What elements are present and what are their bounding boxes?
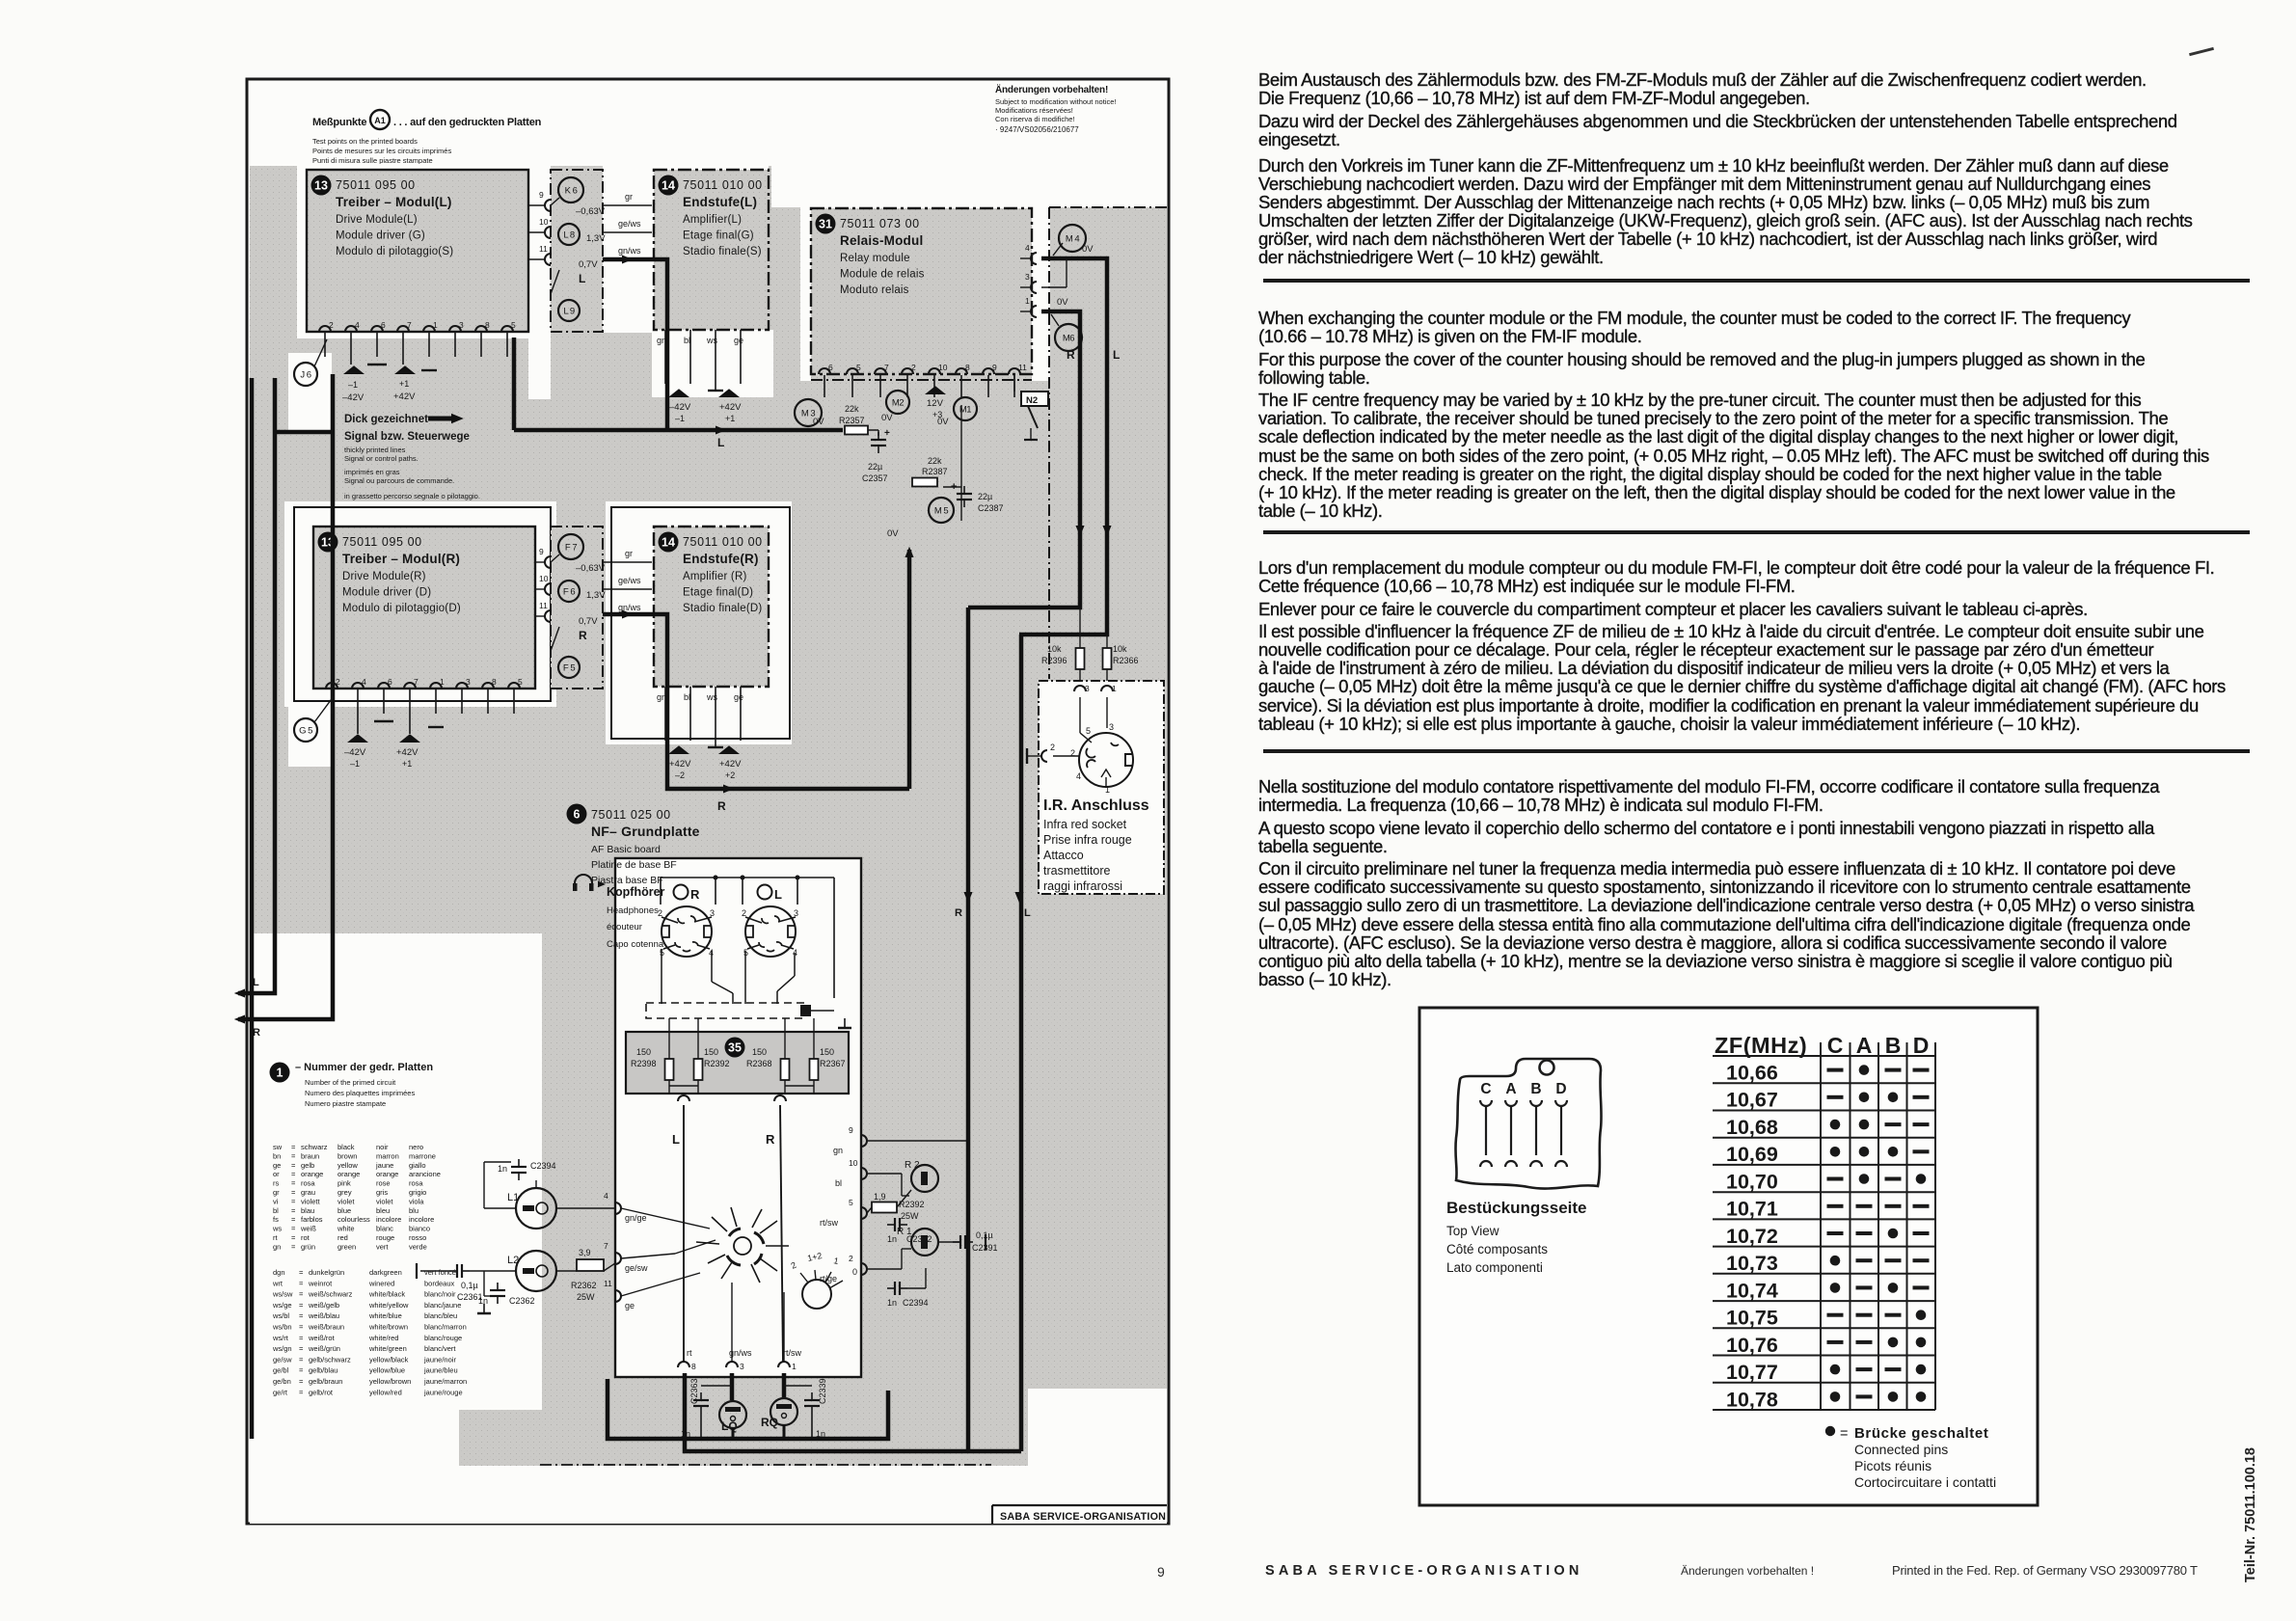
svg-text:F 5: F 5 xyxy=(563,663,575,674)
svg-text:4: 4 xyxy=(1025,243,1030,253)
svg-text:– Nummer der gedr. Platten: – Nummer der gedr. Platten xyxy=(295,1062,433,1073)
svg-text:Numero piastre stampate: Numero piastre stampate xyxy=(305,1099,386,1108)
svg-text:K 6: K 6 xyxy=(565,186,578,197)
svg-text:rouge: rouge xyxy=(376,1233,394,1242)
svg-text:R2392: R2392 xyxy=(704,1059,730,1068)
svg-text:3: 3 xyxy=(459,320,464,330)
svg-text:weinrot: weinrot xyxy=(308,1279,333,1287)
svg-text:LQ: LQ xyxy=(721,1419,738,1433)
svg-text:+: + xyxy=(951,481,957,493)
svg-text:9: 9 xyxy=(539,547,544,556)
svg-text:Picots réunis: Picots réunis xyxy=(1854,1458,1931,1473)
svg-text:–0,63V: –0,63V xyxy=(576,206,606,217)
svg-text:10,72: 10,72 xyxy=(1726,1225,1778,1248)
svg-text:R2368: R2368 xyxy=(746,1059,772,1068)
svg-text:red: red xyxy=(338,1233,348,1242)
svg-text:A1: A1 xyxy=(374,116,386,125)
svg-text:Attacco: Attacco xyxy=(1043,849,1084,862)
svg-text:Connected pins: Connected pins xyxy=(1854,1442,1948,1457)
svg-text:fs: fs xyxy=(273,1215,279,1224)
svg-text:=: = xyxy=(299,1334,304,1342)
svg-text:ge: ge xyxy=(734,692,743,702)
svg-text:dgn: dgn xyxy=(273,1268,285,1277)
svg-text:L: L xyxy=(1024,907,1031,919)
svg-text:11: 11 xyxy=(539,244,548,254)
svg-text:gn: gn xyxy=(657,692,666,702)
svg-text:· 9247/VS02056/210677: · 9247/VS02056/210677 xyxy=(995,125,1079,134)
svg-text:R2366: R2366 xyxy=(1113,656,1139,665)
svg-text:ws: ws xyxy=(272,1225,282,1233)
svg-text:=: = xyxy=(299,1311,304,1320)
svg-text:rt/sw: rt/sw xyxy=(820,1218,838,1228)
svg-text:=: = xyxy=(291,1197,296,1205)
svg-text:giallo: giallo xyxy=(409,1161,426,1170)
svg-text:Bestückungsseite: Bestückungsseite xyxy=(1446,1199,1587,1217)
svg-text:+42V: +42V xyxy=(393,392,416,402)
svg-text:Amplifier(L): Amplifier(L) xyxy=(683,214,742,226)
svg-text:L: L xyxy=(579,272,585,285)
svg-text:C2357: C2357 xyxy=(862,473,888,483)
svg-text:vert: vert xyxy=(376,1242,389,1251)
svg-text:G 5: G 5 xyxy=(299,726,312,737)
svg-text:Signal or control paths.: Signal or control paths. xyxy=(344,454,419,463)
svg-text:2: 2 xyxy=(849,1254,853,1263)
svg-text:11: 11 xyxy=(604,1279,612,1288)
svg-text:3: 3 xyxy=(1085,684,1090,693)
svg-text:ws/rt: ws/rt xyxy=(272,1334,289,1342)
svg-text:1: 1 xyxy=(1112,684,1117,693)
svg-text:10,73: 10,73 xyxy=(1726,1252,1778,1275)
svg-text:1: 1 xyxy=(433,320,438,330)
svg-text:C: C xyxy=(1480,1081,1491,1097)
svg-text:Modulo di pilotaggio(S): Modulo di pilotaggio(S) xyxy=(336,246,453,257)
svg-text:1,9: 1,9 xyxy=(874,1192,886,1202)
svg-text:weiß/grün: weiß/grün xyxy=(308,1344,340,1353)
svg-text:gn: gn xyxy=(273,1242,281,1251)
svg-text:Meßpunkte: Meßpunkte xyxy=(312,117,366,128)
svg-text:white/red: white/red xyxy=(368,1334,398,1342)
svg-text:0V: 0V xyxy=(937,417,949,427)
svg-text:Moduto relais: Moduto relais xyxy=(840,284,909,296)
svg-text:AF Basic board: AF Basic board xyxy=(591,844,661,855)
svg-text:rt/sw: rt/sw xyxy=(783,1348,801,1358)
svg-text:Relais-Modul: Relais-Modul xyxy=(840,233,923,248)
svg-text:+1: +1 xyxy=(402,759,412,769)
svg-text:–42V: –42V xyxy=(344,747,366,758)
svg-text:white/brown: white/brown xyxy=(368,1323,408,1332)
svg-text:gn: gn xyxy=(657,336,666,345)
svg-text:R 1: R 1 xyxy=(897,1227,912,1237)
svg-text:white/black: white/black xyxy=(368,1290,405,1299)
svg-text:white/yellow: white/yellow xyxy=(368,1301,409,1310)
svg-text:Numero des plaquettes imprimée: Numero des plaquettes imprimées xyxy=(305,1089,415,1097)
svg-text:10,70: 10,70 xyxy=(1726,1170,1778,1193)
svg-text:Modulo di pilotaggio(D): Modulo di pilotaggio(D) xyxy=(342,603,461,614)
svg-text:Subject to modification withou: Subject to modification without notice! xyxy=(995,97,1117,106)
svg-text:ws/sw: ws/sw xyxy=(272,1290,293,1299)
svg-text:Test points on the printed boa: Test points on the printed boards xyxy=(312,137,418,146)
svg-text:12V: 12V xyxy=(927,398,944,409)
svg-text:imprimés en gras: imprimés en gras xyxy=(344,468,400,476)
svg-text:3: 3 xyxy=(466,677,471,687)
svg-text:3: 3 xyxy=(1025,272,1030,282)
svg-text:bl: bl xyxy=(684,692,690,702)
svg-text:M6: M6 xyxy=(1063,334,1074,344)
svg-text:–42V: –42V xyxy=(669,402,691,413)
svg-text:ge/sw: ge/sw xyxy=(273,1355,292,1364)
svg-text:Modifications réservées!: Modifications réservées! xyxy=(995,106,1073,115)
svg-text:Endstufe(L): Endstufe(L) xyxy=(683,195,757,209)
svg-text:Kopfhörer: Kopfhörer xyxy=(607,885,665,899)
svg-text:A: A xyxy=(1505,1081,1516,1097)
svg-text:10: 10 xyxy=(849,1158,858,1168)
svg-text:jaune/marron: jaune/marron xyxy=(423,1377,467,1386)
svg-text:5: 5 xyxy=(856,363,861,372)
svg-text:9: 9 xyxy=(849,1125,853,1135)
svg-text:Cortocircuitare i contatti: Cortocircuitare i contatti xyxy=(1854,1474,1996,1490)
svg-text:=: = xyxy=(299,1323,304,1332)
svg-text:farblos: farblos xyxy=(301,1215,323,1224)
svg-text:Prise infra rouge: Prise infra rouge xyxy=(1043,833,1132,847)
svg-text:raggi infrarossi: raggi infrarossi xyxy=(1043,879,1122,893)
svg-text:Top View: Top View xyxy=(1446,1224,1499,1238)
svg-text:ge/bl: ge/bl xyxy=(273,1366,289,1375)
svg-text:C2362: C2362 xyxy=(509,1296,535,1306)
svg-text:4: 4 xyxy=(362,677,366,687)
svg-text:14: 14 xyxy=(662,179,675,193)
svg-text:Treiber – Modul(L): Treiber – Modul(L) xyxy=(336,195,452,209)
svg-text:Treiber – Modul(R): Treiber – Modul(R) xyxy=(342,552,460,566)
svg-text:22k: 22k xyxy=(928,456,942,466)
svg-text:yellow/black: yellow/black xyxy=(369,1355,409,1364)
svg-text:13: 13 xyxy=(314,179,328,193)
svg-text:2: 2 xyxy=(336,677,340,687)
svg-text:rot: rot xyxy=(301,1233,311,1242)
svg-text:ws/ge: ws/ge xyxy=(272,1301,292,1310)
svg-text:+42V: +42V xyxy=(669,759,691,770)
svg-text:Brücke geschaltet: Brücke geschaltet xyxy=(1854,1425,1988,1442)
svg-text:1n: 1n xyxy=(478,1296,488,1306)
svg-text:+42V: +42V xyxy=(719,759,742,770)
svg-text:R 2: R 2 xyxy=(905,1160,920,1171)
svg-text:Module driver (D): Module driver (D) xyxy=(342,587,431,599)
svg-text:C: C xyxy=(1827,1033,1844,1058)
svg-text:R: R xyxy=(1067,348,1075,362)
svg-text:10: 10 xyxy=(539,574,549,583)
svg-text:yellow: yellow xyxy=(338,1161,358,1170)
svg-text:gelb/rot: gelb/rot xyxy=(309,1388,334,1396)
svg-text:1: 1 xyxy=(440,677,445,687)
svg-text:J 6: J 6 xyxy=(300,370,311,381)
svg-text:22µ: 22µ xyxy=(868,462,882,472)
svg-text:viola: viola xyxy=(409,1197,424,1205)
svg-text:=: = xyxy=(291,1179,296,1188)
svg-text:=: = xyxy=(291,1242,296,1251)
svg-text:gelb: gelb xyxy=(301,1161,314,1170)
svg-text:Module driver (G): Module driver (G) xyxy=(336,230,425,242)
svg-text:75011 025 00: 75011 025 00 xyxy=(591,808,671,822)
svg-text:gn: gn xyxy=(833,1146,843,1155)
svg-text:0: 0 xyxy=(852,1267,857,1277)
svg-text:vert foncé: vert foncé xyxy=(424,1268,456,1277)
svg-text:bl: bl xyxy=(273,1206,279,1215)
svg-text:bl: bl xyxy=(835,1178,842,1188)
svg-text:blanc: blanc xyxy=(376,1225,393,1233)
svg-text:Dick gezeichnet: Dick gezeichnet xyxy=(344,414,428,425)
svg-text:22k: 22k xyxy=(845,404,859,414)
svg-text:blanc/rouge: blanc/rouge xyxy=(424,1334,462,1342)
svg-text:gn/ws: gn/ws xyxy=(618,603,641,612)
svg-text:1: 1 xyxy=(277,1067,284,1080)
svg-text:Stadio finale(D): Stadio finale(D) xyxy=(683,603,762,614)
svg-text:marrone: marrone xyxy=(409,1151,436,1160)
svg-text:L 8: L 8 xyxy=(563,230,575,241)
svg-text:0V: 0V xyxy=(887,528,899,539)
svg-text:–2: –2 xyxy=(675,770,685,780)
svg-text:7: 7 xyxy=(407,320,412,330)
svg-text:=: = xyxy=(291,1170,296,1178)
svg-text:rosa: rosa xyxy=(409,1179,423,1188)
svg-text:yellow/blue: yellow/blue xyxy=(369,1366,405,1375)
svg-text:ge/bn: ge/bn xyxy=(273,1377,291,1386)
svg-text:weiß/blau: weiß/blau xyxy=(308,1311,339,1320)
svg-text:jaune/rouge: jaune/rouge xyxy=(423,1388,463,1396)
svg-text:ge: ge xyxy=(273,1161,281,1170)
svg-text:marron: marron xyxy=(376,1151,399,1160)
svg-text:B: B xyxy=(1885,1033,1902,1058)
svg-text:Stadio finale(S): Stadio finale(S) xyxy=(683,246,762,257)
svg-text:blanc/vert: blanc/vert xyxy=(424,1344,456,1353)
svg-text:10,71: 10,71 xyxy=(1726,1198,1778,1221)
svg-text:SABA SERVICE-ORGANISATION: SABA SERVICE-ORGANISATION xyxy=(1000,1511,1166,1523)
svg-text:=: = xyxy=(291,1233,296,1242)
svg-text:3,9: 3,9 xyxy=(579,1248,591,1257)
svg-text:Relay module: Relay module xyxy=(840,253,910,264)
svg-text:L1: L1 xyxy=(507,1192,519,1203)
svg-text:bianco: bianco xyxy=(409,1225,430,1233)
svg-text:75011 095 00: 75011 095 00 xyxy=(336,178,416,192)
svg-text:R2367: R2367 xyxy=(820,1059,846,1068)
svg-text:ws/bl: ws/bl xyxy=(272,1311,289,1320)
svg-text:F 7: F 7 xyxy=(565,543,577,554)
svg-text:Endstufe(R): Endstufe(R) xyxy=(683,552,759,566)
svg-text:jaune: jaune xyxy=(375,1161,393,1170)
svg-text:=: = xyxy=(299,1268,304,1277)
svg-text:10,78: 10,78 xyxy=(1726,1388,1778,1411)
svg-text:0V: 0V xyxy=(1082,244,1094,255)
svg-text:150: 150 xyxy=(820,1047,834,1057)
svg-text:Number of the primed circuit: Number of the primed circuit xyxy=(305,1078,396,1087)
svg-text:weiß/rot: weiß/rot xyxy=(308,1334,336,1342)
svg-text:ge/ws: ge/ws xyxy=(618,219,641,229)
svg-text:blu: blu xyxy=(409,1206,419,1215)
svg-text:sw: sw xyxy=(273,1143,283,1151)
svg-text:ws/bn: ws/bn xyxy=(272,1323,292,1332)
svg-text:2: 2 xyxy=(329,320,334,330)
svg-text:2: 2 xyxy=(1050,743,1055,752)
svg-text:5: 5 xyxy=(849,1198,853,1207)
svg-text:bordeaux: bordeaux xyxy=(424,1279,455,1287)
svg-text:Etage final(G): Etage final(G) xyxy=(683,230,754,242)
svg-text:=: = xyxy=(291,1161,296,1170)
svg-text:arancione: arancione xyxy=(409,1170,441,1178)
svg-text:0V: 0V xyxy=(881,413,893,423)
svg-text:I.R. Anschluss: I.R. Anschluss xyxy=(1043,797,1149,814)
svg-text:1: 1 xyxy=(1025,296,1030,306)
svg-text:=: = xyxy=(1840,1426,1848,1442)
svg-text:rosa: rosa xyxy=(301,1179,315,1188)
svg-text:violett: violett xyxy=(301,1197,321,1205)
svg-text:gris: gris xyxy=(376,1188,388,1197)
svg-text:incolore: incolore xyxy=(409,1215,434,1224)
svg-text:1n: 1n xyxy=(498,1164,507,1174)
svg-text:verde: verde xyxy=(409,1242,427,1251)
svg-text:gn/ws: gn/ws xyxy=(618,246,641,256)
svg-text:R2357: R2357 xyxy=(839,416,865,425)
svg-text:10,67: 10,67 xyxy=(1726,1089,1778,1112)
svg-text:11: 11 xyxy=(1018,363,1027,372)
svg-text:blanc/noir: blanc/noir xyxy=(424,1290,456,1299)
svg-text:dunkelgrün: dunkelgrün xyxy=(309,1268,344,1277)
svg-text:ge: ge xyxy=(625,1301,635,1310)
svg-text:3: 3 xyxy=(794,908,798,918)
svg-text:M 4: M 4 xyxy=(1066,234,1080,245)
svg-text:Côté composants: Côté composants xyxy=(1446,1242,1548,1256)
svg-text:10k: 10k xyxy=(1113,644,1127,654)
svg-text:blue: blue xyxy=(338,1206,351,1215)
svg-text:1n: 1n xyxy=(887,1298,897,1308)
svg-text:10,68: 10,68 xyxy=(1726,1116,1778,1139)
svg-text:jaune/noir: jaune/noir xyxy=(423,1355,456,1364)
svg-text:4: 4 xyxy=(604,1191,608,1201)
svg-text:Headphones: Headphones xyxy=(607,905,659,916)
svg-text:R2398: R2398 xyxy=(631,1059,657,1068)
svg-text:+42V: +42V xyxy=(719,402,742,413)
svg-text:=: = xyxy=(291,1151,296,1160)
svg-text:–0,63V: –0,63V xyxy=(576,563,606,574)
svg-text:22µ: 22µ xyxy=(978,492,992,501)
svg-text:rt/ge: rt/ge xyxy=(820,1274,837,1283)
svg-text:N2: N2 xyxy=(1026,395,1038,406)
svg-text:Signal bzw. Steuerwege: Signal bzw. Steuerwege xyxy=(344,431,470,443)
svg-text:10,76: 10,76 xyxy=(1726,1334,1778,1357)
svg-text:trasmettitore: trasmettitore xyxy=(1043,864,1111,878)
svg-text:=: = xyxy=(299,1301,304,1310)
svg-text:white/blue: white/blue xyxy=(368,1311,402,1320)
svg-text:0V: 0V xyxy=(1057,297,1068,308)
svg-text:RQ: RQ xyxy=(761,1416,778,1429)
svg-text:10: 10 xyxy=(938,363,948,372)
svg-text:gelb/blau: gelb/blau xyxy=(309,1366,338,1375)
svg-text:9: 9 xyxy=(992,363,997,372)
svg-text:2: 2 xyxy=(911,363,916,372)
svg-text:+2: +2 xyxy=(725,770,735,780)
svg-text:Capo cotenna: Capo cotenna xyxy=(607,939,664,950)
svg-text:noir: noir xyxy=(376,1143,389,1151)
svg-text:=: = xyxy=(291,1143,296,1151)
svg-text:75011 095 00: 75011 095 00 xyxy=(342,535,422,549)
svg-text:jaune/bleu: jaune/bleu xyxy=(423,1366,458,1375)
svg-text:M 5: M 5 xyxy=(934,506,949,517)
svg-text:150: 150 xyxy=(636,1047,651,1057)
svg-text:10: 10 xyxy=(539,217,549,227)
svg-text:grau: grau xyxy=(301,1188,315,1197)
svg-text:blanc/marron: blanc/marron xyxy=(424,1323,467,1332)
svg-text:thickly printed lines: thickly printed lines xyxy=(344,446,406,454)
svg-text:=: = xyxy=(299,1290,304,1299)
svg-text:0,1µ: 0,1µ xyxy=(976,1230,993,1240)
svg-text:B: B xyxy=(1530,1081,1541,1097)
svg-text:75011 073 00: 75011 073 00 xyxy=(840,217,920,230)
svg-text:winered: winered xyxy=(368,1279,394,1287)
svg-text:. . . auf den gedruckten Platt: . . . auf den gedruckten Platten xyxy=(393,117,542,128)
svg-text:bleu: bleu xyxy=(376,1206,390,1215)
svg-text:R2362: R2362 xyxy=(571,1281,597,1290)
svg-text:8: 8 xyxy=(485,320,490,330)
svg-text:0,7V: 0,7V xyxy=(579,616,598,627)
svg-text:=: = xyxy=(299,1388,304,1396)
svg-text:black: black xyxy=(338,1143,355,1151)
svg-text:0,7V: 0,7V xyxy=(579,259,598,270)
svg-text:=: = xyxy=(299,1355,304,1364)
svg-text:gr: gr xyxy=(625,192,633,202)
svg-text:1: 1 xyxy=(792,1362,797,1371)
svg-text:brown: brown xyxy=(338,1151,357,1160)
svg-text:blanc/jaune: blanc/jaune xyxy=(424,1301,461,1310)
svg-text:Points de mesures sur les circ: Points de mesures sur les circuits impri… xyxy=(312,147,451,155)
svg-text:35: 35 xyxy=(728,1041,742,1055)
svg-text:C2363: C2363 xyxy=(689,1378,699,1404)
svg-text:gn/ge: gn/ge xyxy=(625,1213,647,1223)
svg-text:L2: L2 xyxy=(507,1255,519,1266)
svg-text:green: green xyxy=(338,1242,356,1251)
svg-text:4: 4 xyxy=(1076,771,1081,781)
svg-text:in grassetto percorso segnale: in grassetto percorso segnale o pilotagg… xyxy=(344,492,480,500)
svg-text:6: 6 xyxy=(828,363,833,372)
svg-text:C2394: C2394 xyxy=(903,1298,929,1308)
svg-text:Etage final(D): Etage final(D) xyxy=(683,587,753,599)
svg-text:5: 5 xyxy=(1086,726,1091,736)
svg-text:7: 7 xyxy=(414,677,419,687)
svg-text:150: 150 xyxy=(752,1047,767,1057)
svg-text:–1: –1 xyxy=(675,414,685,423)
svg-text:25W: 25W xyxy=(901,1211,919,1221)
svg-text:C2339: C2339 xyxy=(818,1378,827,1404)
svg-text:0V: 0V xyxy=(813,417,824,427)
svg-text:10,74: 10,74 xyxy=(1726,1279,1778,1302)
svg-text:ge/rt: ge/rt xyxy=(273,1388,288,1396)
svg-text:1n: 1n xyxy=(887,1234,897,1244)
svg-text:6: 6 xyxy=(381,320,386,330)
svg-text:R: R xyxy=(955,907,962,919)
svg-text:yellow/brown: yellow/brown xyxy=(369,1377,411,1386)
svg-text:Amplifier (R): Amplifier (R) xyxy=(683,571,747,582)
svg-text:8: 8 xyxy=(691,1362,696,1371)
svg-text:C2394: C2394 xyxy=(530,1161,556,1171)
svg-text:rosso: rosso xyxy=(409,1233,426,1242)
svg-text:gr: gr xyxy=(273,1188,280,1197)
svg-text:R: R xyxy=(690,887,700,902)
svg-text:Module de relais: Module de relais xyxy=(840,269,925,281)
svg-text:75011 010 00: 75011 010 00 xyxy=(683,178,763,192)
svg-text:weiß/braun: weiß/braun xyxy=(308,1323,344,1332)
svg-text:orange: orange xyxy=(376,1170,398,1178)
svg-text:=: = xyxy=(291,1225,296,1233)
svg-text:R: R xyxy=(717,799,726,813)
svg-text:–42V: –42V xyxy=(342,392,365,403)
svg-text:14: 14 xyxy=(662,536,675,550)
svg-text:incolore: incolore xyxy=(376,1215,401,1224)
